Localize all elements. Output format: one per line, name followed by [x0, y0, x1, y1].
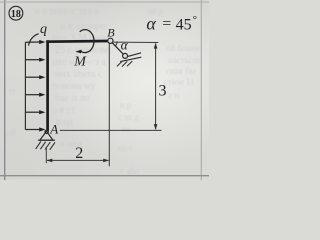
svg-text:B: B — [107, 26, 115, 40]
table cell borders (scan grid) — [4, 0, 6, 180]
load arrow 5 — [25, 111, 40, 113]
svg-text:A: A — [49, 121, 58, 136]
angle alpha arc — [115, 42, 117, 46]
svg-text:3: 3 — [159, 83, 167, 100]
problem number 18 (circled) — [9, 6, 23, 20]
hinge circle at B — [108, 38, 113, 43]
A hatch tick 1 — [36, 141, 41, 149]
load arrow 6 (bottom) — [25, 129, 40, 131]
svg-text:α: α — [121, 37, 129, 52]
A hatch tick 3 — [45, 142, 50, 150]
svg-text:18: 18 — [11, 9, 21, 20]
load arrow 1 (top) — [25, 41, 40, 43]
roller hatch tick 2 — [122, 61, 127, 66]
distributed load q : load line — [24, 42, 26, 130]
svg-text:q: q — [40, 22, 47, 37]
svg-text:M: M — [73, 54, 87, 69]
pin support A: hinge circle — [45, 130, 48, 133]
load arrow 4 — [25, 94, 40, 96]
load arrow 3 — [25, 76, 40, 78]
roller circle — [123, 53, 128, 58]
A hatch tick 4 — [50, 142, 55, 150]
load arrow 2 — [25, 59, 40, 61]
roller hatch tick 1 — [117, 61, 122, 66]
dimension line 3 (vertical) — [155, 44, 157, 130]
extension line from B to dim 3 — [113, 41, 158, 43]
svg-text:2: 2 — [75, 145, 83, 162]
pin support A: base line — [38, 139, 55, 141]
support link at B (45 deg) — [112, 43, 123, 55]
faint bleed-through ghost text (decorative) — [34, 6, 99, 17]
svg-text:α=45°: α=45° — [146, 14, 197, 34]
extension line below A (for dim 2) — [45, 147, 47, 163]
moment M arc — [80, 30, 94, 53]
A hatch tick 2 — [40, 142, 45, 150]
dimension line 2 (horizontal) — [47, 159, 109, 161]
frame left column (A to corner) — [46, 40, 49, 131]
ground line upper (roller) — [127, 53, 141, 57]
q leader curl — [29, 34, 39, 46]
extension line below B (for dim 2) — [108, 44, 110, 167]
pin support A: triangle — [40, 131, 53, 140]
extension line from A (right, for dim 3) — [60, 129, 162, 131]
frame top beam (corner to B) — [46, 40, 108, 43]
roller hatch tick 3 — [127, 61, 132, 66]
ground line lower (roller) — [120, 57, 141, 61]
